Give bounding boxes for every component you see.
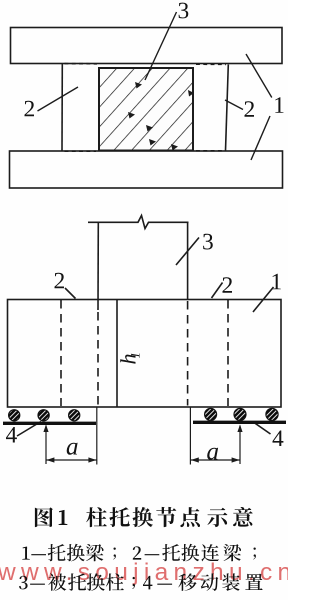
leader label 4 left bbox=[17, 422, 41, 437]
wire: hidden dashed edge top-left bbox=[65, 63, 98, 65]
leader for label 2 right (top fig) bbox=[225, 100, 243, 110]
label 1 (elevation) bbox=[273, 274, 281, 290]
leader label 2 right (bottom fig) bbox=[212, 283, 223, 299]
dim letter a left bbox=[67, 443, 78, 455]
leader for label 2 left (top fig) bbox=[38, 87, 79, 111]
beam assembly rectangle bbox=[8, 300, 282, 408]
label 2 left (plan) bbox=[25, 101, 35, 117]
label 4 right bbox=[273, 431, 284, 447]
column 3 left edge bbox=[97, 222, 99, 310]
label 2 left (elevation) bbox=[55, 273, 65, 289]
label 3 (plan) bbox=[179, 3, 189, 19]
leader label 1 (bottom fig) bbox=[253, 287, 274, 312]
legend line 1 bbox=[22, 544, 256, 562]
leader for label 1 (top fig) bbox=[246, 54, 272, 98]
leader label 3 (bottom fig) bbox=[176, 238, 199, 266]
leader label 2 left (bottom fig) bbox=[65, 288, 76, 299]
wire: hidden dashed edge bottom-left bbox=[65, 150, 97, 152]
column cut line with break bbox=[88, 216, 189, 229]
beam 1 top rectangle bbox=[11, 28, 283, 64]
legend line 2 bbox=[19, 573, 263, 591]
label 2 right (plan) bbox=[245, 101, 255, 117]
label 2 right (elevation) bbox=[223, 277, 233, 293]
column 3 left edge hidden bbox=[97, 312, 99, 406]
column 3 hatched square bbox=[99, 68, 193, 151]
leader for label 3 (top) bbox=[145, 12, 177, 80]
rail left bbox=[3, 422, 96, 425]
wire: left connecting beam edge (2) bbox=[61, 64, 63, 152]
h1 dimension line bbox=[116, 300, 118, 408]
wire: right connecting beam edge (2) bbox=[226, 65, 229, 151]
hidden edge connecting beam right bbox=[227, 300, 229, 406]
beam 1 bottom rectangle bbox=[10, 151, 283, 188]
wire: hidden dashed edge bottom-right bbox=[196, 150, 225, 152]
aggregate marks inside column bbox=[128, 82, 194, 151]
rail right bbox=[193, 421, 286, 424]
svg-text:www.soujianzhu.cn: www.soujianzhu.cn bbox=[0, 559, 288, 586]
dim label h1 bbox=[120, 353, 139, 363]
label 4 left bbox=[6, 427, 17, 443]
leader label 4 right bbox=[254, 423, 271, 435]
caption 图1 柱托换节点示意 bbox=[35, 507, 253, 527]
hidden edge connecting beam left bbox=[60, 300, 62, 406]
column 3 right edge bbox=[187, 222, 189, 299]
rollers (movable devices 4) bbox=[9, 408, 279, 421]
label 3 (elevation) bbox=[203, 234, 213, 250]
wire: hidden dashed edge top-right bbox=[196, 63, 226, 65]
label 1 (plan) bbox=[275, 97, 283, 113]
dimension a left bbox=[43, 408, 96, 465]
dimension a right bbox=[190, 408, 242, 465]
column 3 right edge hidden bbox=[187, 301, 189, 406]
leader for label 1 lower (top fig) bbox=[251, 116, 270, 160]
dim letter a right bbox=[207, 448, 218, 460]
